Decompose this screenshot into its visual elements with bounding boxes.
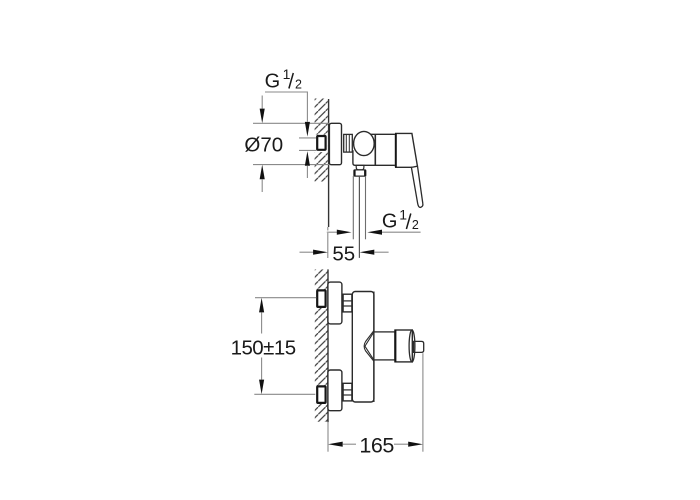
wall face line (top drawing) bbox=[328, 99, 330, 227]
svg-text:2: 2 bbox=[412, 218, 419, 232]
junction thick line bbox=[395, 133, 397, 167]
svg-text:Ø70: Ø70 bbox=[244, 133, 283, 156]
55 dim line right bbox=[374, 251, 388, 253]
svg-text:1: 1 bbox=[283, 66, 291, 82]
handle cap bbox=[396, 133, 418, 167]
outlet pipe walls bbox=[352, 176, 354, 239]
165 extension left (wall line continuation) bbox=[327, 422, 329, 452]
150 extension line bottom bbox=[254, 393, 315, 395]
outlet shoulder bbox=[356, 165, 364, 170]
extension line bottom (O70) bbox=[253, 164, 329, 166]
55 arrow pointing right at wall bbox=[313, 250, 328, 255]
G 1/2 top bracket line bbox=[265, 92, 307, 122]
body cylinder white fill bbox=[365, 134, 396, 165]
165 dim line left bbox=[343, 443, 356, 445]
in-wall union nut top bbox=[317, 290, 325, 307]
lever blade bbox=[411, 166, 423, 207]
150 dim line lower part bbox=[261, 358, 263, 380]
cartridge joint line bbox=[374, 134, 376, 165]
in-wall union nut bottom bbox=[317, 386, 325, 403]
55 wall extension line bbox=[327, 233, 329, 258]
150 dim line upper part bbox=[261, 312, 263, 333]
G 1/2 lower leader left segment bbox=[327, 231, 341, 233]
connector nut (side) bbox=[344, 134, 353, 152]
cartridge cap bbox=[395, 330, 412, 362]
leader line right segment bbox=[382, 231, 421, 233]
union nut in wall (thick square) bbox=[317, 136, 325, 150]
right leg tail bbox=[306, 166, 308, 178]
svg-text:55: 55 bbox=[332, 243, 355, 266]
white channel bottom bbox=[313, 386, 328, 404]
svg-text:G: G bbox=[265, 71, 281, 93]
arrow up to escutcheon bottom bbox=[260, 165, 265, 180]
165 dim line right bbox=[394, 443, 408, 445]
wall face line (bottom drawing) bbox=[327, 269, 329, 422]
body right edge over cone bbox=[373, 292, 375, 403]
dim line tail below bbox=[261, 179, 263, 192]
escutcheon bottom (front) bbox=[328, 370, 342, 411]
cap joint thick line bbox=[394, 330, 396, 362]
165 extension right bbox=[422, 353, 424, 452]
wall hatching (top view wall) bbox=[315, 99, 328, 182]
cap end dome ellipse bbox=[409, 330, 415, 362]
arrow down to escutcheon top bbox=[260, 109, 265, 124]
leader arrow pointing left at pipe bbox=[367, 230, 382, 235]
wall hole white channel bbox=[313, 135, 328, 153]
150 arrow down bbox=[259, 380, 264, 395]
55 dim line left bbox=[300, 251, 316, 253]
ball joint bbox=[354, 131, 375, 155]
svg-text:G: G bbox=[382, 210, 398, 232]
150 arrow up bbox=[259, 298, 264, 313]
extension line top (O70) bbox=[253, 122, 329, 124]
165 arrow pointing right bbox=[408, 442, 423, 447]
wall hatching (bottom drawing) bbox=[315, 269, 328, 422]
white channel top bbox=[313, 290, 328, 308]
svg-text:150±15: 150±15 bbox=[231, 337, 296, 360]
150 extension line top bbox=[255, 297, 316, 299]
arrow down to nut top bbox=[305, 122, 310, 137]
arrow up to nut bottom bbox=[305, 151, 310, 166]
leader arrow pointing right at pipe bbox=[337, 230, 352, 235]
mixer body (front) bbox=[352, 292, 374, 403]
connector nut bottom (front) bbox=[343, 383, 352, 401]
55 arrow pointing left at pipe center bbox=[360, 250, 375, 255]
outlet nut bbox=[354, 170, 366, 176]
escutcheon top (front) bbox=[328, 282, 342, 324]
svg-text:165: 165 bbox=[359, 434, 394, 458]
escutcheon flange (side) bbox=[329, 123, 341, 164]
svg-text:1: 1 bbox=[399, 207, 407, 223]
supply stub pipe lines bbox=[299, 137, 316, 139]
pipe center line / 55 extension bbox=[358, 176, 360, 258]
neck bbox=[374, 332, 395, 360]
cone transition bbox=[364, 331, 374, 362]
svg-text:2: 2 bbox=[295, 77, 302, 91]
connector nut top (front) bbox=[343, 294, 352, 312]
body edges bbox=[353, 134, 395, 165]
knob bbox=[414, 341, 424, 352]
165 arrow pointing left bbox=[328, 442, 343, 447]
